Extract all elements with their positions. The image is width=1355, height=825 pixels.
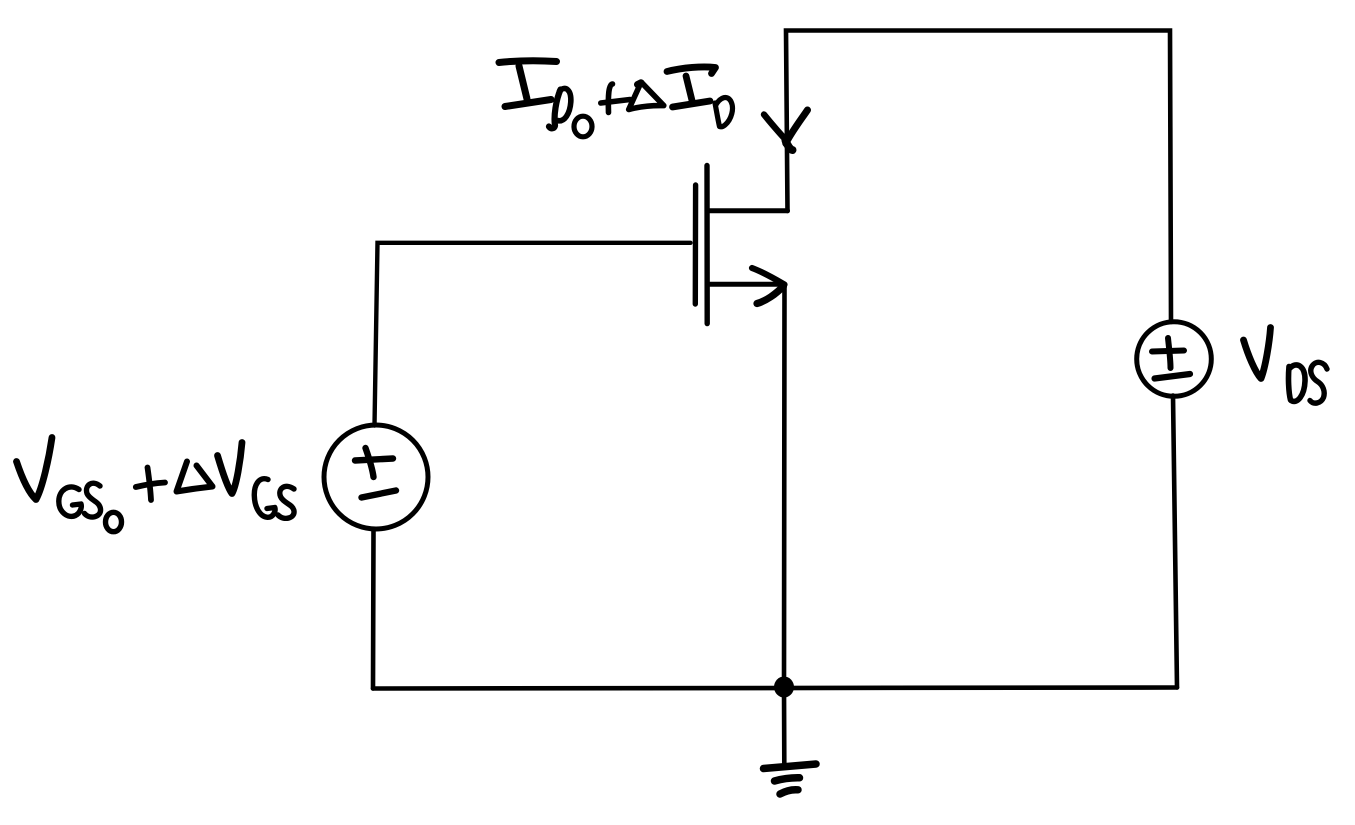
label dID : letter I (667, 67, 716, 107)
wire node to ground (782, 687, 787, 763)
label plus sign left (136, 468, 165, 501)
label dVGS subscript S (278, 486, 294, 518)
label VDS subscript D (1289, 365, 1306, 401)
wire VGS bottom to bottom rail (371, 529, 376, 689)
voltage source V1 minus sign (362, 491, 397, 498)
label VGS0 subscript S (85, 483, 101, 517)
label dID subscript D (715, 98, 732, 127)
voltage source V2 (VDS) circle (1137, 322, 1212, 397)
label ID0 subscript D (549, 88, 571, 128)
wire bottom rail (373, 688, 1177, 689)
label ID0 + dID : letter I (499, 61, 557, 107)
wire source of transistor down to node (782, 285, 787, 688)
label delta triangle (629, 83, 664, 110)
label plus sign (601, 84, 630, 113)
transistor Q1 (NMOS) gate plate (693, 185, 699, 304)
label VDS : letter V (1244, 328, 1271, 379)
label dVGS : letter V (218, 443, 243, 494)
label VGS0 + dVGS : letter V (17, 438, 53, 500)
node junction dot (774, 677, 794, 698)
wire drain top: from transistor drain up and across to VDS source (786, 31, 1171, 323)
label ID0 subscript 0 (574, 116, 592, 137)
current arrow ID into drain (764, 110, 808, 150)
label dVGS subscript G (254, 479, 275, 518)
wire VDS bottom to bottom rail (1173, 396, 1177, 688)
wire gate loop: gate lead left and down to VGS source (375, 243, 691, 426)
voltage source V2 plus sign (1152, 338, 1184, 368)
label delta left (177, 462, 213, 492)
voltage source V1 (VGS0 + dVGS) circle (324, 425, 428, 529)
label VGS0 subscript 0 (106, 512, 122, 531)
transistor Q1 drain lead (707, 208, 788, 213)
transistor Q1 source lead with arrow (708, 268, 785, 304)
label VGS0 subscript G (59, 487, 81, 516)
voltage source V2 minus sign (1155, 374, 1191, 379)
label VDS subscript S (1310, 362, 1327, 403)
voltage source V1 plus sign (355, 448, 393, 477)
ground (764, 764, 817, 794)
transistor Q1 channel line (704, 166, 710, 324)
